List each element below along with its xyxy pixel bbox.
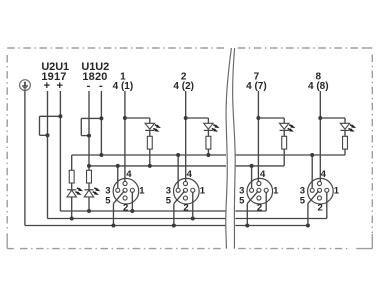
wire LED to resistor port 2	[207, 130, 209, 137]
node pin5 socket (7) on FE	[245, 224, 249, 228]
node LED V1 on line B	[70, 217, 74, 221]
label port 2	[181, 71, 187, 82]
wire pin 1 socket (8) to +bus	[326, 192, 328, 218]
svg-text:1: 1	[200, 186, 206, 197]
svg-text:1: 1	[139, 186, 145, 197]
border frame top-left segment	[7, 47, 224, 49]
wire +24V bus U1 (line A) left part	[60, 210, 226, 212]
wire LED to resistor port 1	[149, 130, 151, 137]
border frame bottom-left segment	[7, 233, 224, 248]
wire bridge -terminals	[81, 118, 101, 135]
svg-text:+: +	[56, 80, 62, 92]
node pin3 socket (1)	[116, 164, 120, 168]
wire terminal 19 (+U2) down to +bus B	[47, 91, 50, 219]
wire signal 2 down to pin 4	[185, 91, 187, 182]
node pin5 socket (1) on FE	[111, 224, 115, 228]
LED port 1 arrows	[153, 125, 161, 132]
wire signal 8 down to pin 4	[319, 91, 321, 182]
border frame bottom-right segment	[238, 234, 372, 249]
label U2U1	[41, 61, 69, 73]
wire LED branch port 7	[258, 118, 284, 123]
wire R1 to LED1	[71, 183, 73, 190]
wire +24V bus U1 (line A) right part	[235, 210, 266, 212]
LED port 7 arrows	[288, 125, 296, 132]
node resistor port2 on line1	[206, 153, 210, 157]
wire resistor port 8 down	[344, 149, 346, 155]
svg-text:5: 5	[239, 195, 245, 206]
M12 socket (8)	[308, 178, 334, 204]
socket (2) pin labels	[166, 169, 206, 214]
LED port 2	[204, 123, 213, 130]
socket (7) pin labels	[239, 169, 279, 214]
break mark left curve	[226, 48, 232, 249]
wire 0V to pin 3 socket (2)	[177, 155, 179, 188]
wire +24V bus U2 (line B) left part	[48, 218, 227, 220]
LED port 2 arrows	[212, 125, 220, 132]
label port 1	[120, 71, 126, 82]
label 4 (8)	[308, 81, 329, 92]
svg-text:4 (7): 4 (7)	[246, 81, 267, 92]
socket (8) pin labels	[300, 169, 340, 214]
resistor R port 7	[282, 136, 287, 149]
label minus minus	[87, 80, 103, 92]
M12 socket (7)	[247, 178, 273, 204]
wire terminal 20 (-U2) down to 0V bus line1	[100, 91, 102, 155]
wire LED V1 to +bus B	[71, 197, 73, 219]
svg-text:5: 5	[166, 195, 172, 206]
svg-text:4 (8): 4 (8)	[308, 81, 329, 92]
node LED V2 on line A	[87, 209, 91, 213]
wire terminal 17 (+U1) down to +bus A	[59, 91, 62, 211]
node signal 2 branch	[184, 116, 188, 120]
wire +24V bus U2 (line B) right part	[235, 218, 326, 220]
node signal 7 branch	[256, 116, 260, 120]
border frame left side	[6, 55, 8, 232]
svg-text:-: -	[87, 80, 91, 92]
LED V1 (supply U2 indicator)	[67, 190, 76, 197]
socket (1) pin labels	[105, 169, 145, 214]
wire resistor port 7 down	[283, 149, 285, 166]
wire LED branch port 8	[320, 118, 345, 123]
wire terminal 18 (-U1) down to resistor	[88, 91, 90, 170]
resistor R port 8	[343, 136, 348, 149]
node terminal20 on line1	[99, 153, 103, 157]
node resistor port1 on line2	[148, 164, 152, 168]
node bridge + bottom	[46, 133, 50, 137]
label 1917	[41, 71, 66, 83]
label U1U2	[81, 61, 109, 73]
LED V2 (supply U1 indicator)	[84, 190, 93, 197]
wire resistor port 1 down	[149, 149, 151, 166]
break mark right curve	[233, 48, 236, 249]
node signal 1 branch	[123, 116, 127, 120]
wire 0V bus U2 (line 1) left part	[72, 154, 226, 156]
wire LED branch port 2	[186, 118, 209, 123]
wire 0V bus U1 (line 2) left part	[89, 165, 226, 167]
LED port 8 arrows	[349, 125, 357, 132]
svg-text:2: 2	[317, 202, 322, 213]
wire pin 5 socket (1) to FE bus	[113, 191, 124, 225]
node pin5 socket (8) on FE	[306, 224, 310, 228]
wire R2 to LED2	[88, 183, 90, 190]
wire 0V bus U2 (line 1) right part	[235, 154, 345, 156]
LED port 1	[145, 123, 154, 130]
resistor R port 2	[206, 136, 211, 149]
node bridge + top	[58, 114, 62, 118]
node pin3 socket (2)	[176, 153, 180, 157]
M12 socket (2)	[174, 178, 200, 204]
svg-text:1: 1	[273, 186, 279, 197]
label 1820	[82, 71, 107, 83]
svg-text:2: 2	[123, 202, 128, 213]
wire LED V2 to +bus A	[88, 197, 90, 211]
node pin3 socket (7)	[250, 164, 254, 168]
wire LED to resistor port 7	[283, 130, 285, 137]
node pin1 socket (2) on line B	[191, 217, 195, 221]
label port 8	[316, 71, 322, 82]
node terminal18 on line2	[87, 164, 91, 168]
wire pin 5 socket (2) to FE bus	[174, 191, 185, 225]
svg-text:2: 2	[257, 202, 262, 213]
node pin1 socket (1) on line A	[130, 209, 134, 213]
svg-text:4: 4	[321, 169, 327, 180]
svg-text:4 (1): 4 (1)	[113, 81, 134, 92]
border frame top-right segment	[238, 47, 372, 49]
wire 0V to pin 3 socket (8)	[311, 155, 313, 188]
wire LED to resistor port 8	[344, 130, 346, 137]
wire FE bus (line C) left part	[25, 225, 226, 227]
wire pin 5 socket (8) to FE bus	[308, 191, 319, 225]
LED V2 arrows	[93, 188, 101, 195]
resistor R port 1	[147, 136, 152, 149]
svg-text:4: 4	[187, 169, 193, 180]
label plus plus	[44, 80, 63, 92]
wire signal 7 down to pin 4	[257, 91, 259, 182]
wire FE bus (line C) right part	[235, 225, 308, 227]
svg-text:2: 2	[183, 202, 188, 213]
wire 0V to pin 3 socket (7)	[251, 166, 253, 188]
label 4 (7)	[246, 81, 267, 92]
wire LED branch port 1	[125, 118, 150, 123]
svg-text:+: +	[44, 80, 50, 92]
node bridge - bottom	[87, 134, 91, 138]
node pin3 socket (8)	[310, 153, 314, 157]
svg-text:-: -	[99, 80, 103, 92]
M12 socket (1)	[113, 178, 139, 204]
earth terminal symbol	[20, 80, 31, 91]
LED V1 arrows	[75, 188, 83, 195]
svg-text:4 (2): 4 (2)	[173, 81, 194, 92]
wire 0V to pin 3 socket (1)	[117, 166, 119, 188]
LED port 8	[340, 123, 349, 130]
label port 7	[254, 71, 260, 82]
resistor R2	[87, 170, 92, 183]
svg-text:4: 4	[260, 169, 266, 180]
wire pin 1 socket (7) to +bus	[265, 192, 267, 211]
wire 0V bus U1 (line 2) right part	[235, 165, 284, 167]
svg-text:1: 1	[334, 186, 340, 197]
wire signal 1 down to pin 4	[124, 91, 126, 182]
svg-text:5: 5	[105, 195, 111, 206]
node bridge - top	[99, 116, 103, 120]
wire bridge +terminals	[40, 116, 61, 135]
wire line1 corner down to resistor R1	[71, 155, 73, 170]
node pin5 socket (2) on FE	[172, 224, 176, 228]
label 4 (2)	[173, 81, 194, 92]
label 4 (1)	[113, 81, 134, 92]
wire resistor port 2 down	[207, 149, 209, 155]
LED port 7	[280, 123, 289, 130]
wire earth to FE bus	[24, 91, 26, 226]
svg-text:4: 4	[126, 169, 132, 180]
node signal 8 branch	[318, 116, 322, 120]
wire pin 5 socket (7) to FE bus	[247, 191, 258, 225]
wire pin 1 socket (1) to +bus	[131, 192, 133, 211]
wire pin 1 socket (2) to +bus	[192, 192, 194, 218]
resistor R1	[69, 170, 74, 183]
border frame right side	[371, 55, 373, 234]
svg-text:5: 5	[300, 195, 306, 206]
